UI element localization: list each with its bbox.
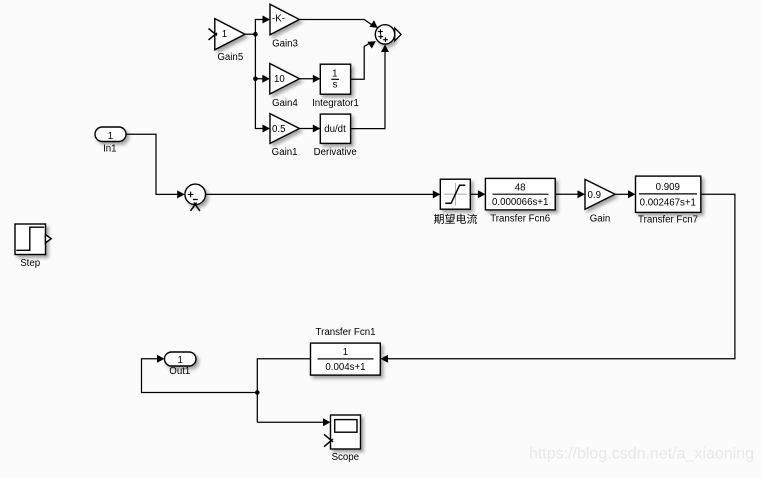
- transfer function TransferFcn6: [485, 178, 555, 210]
- svg-text:Gain: Gain: [590, 214, 610, 225]
- svg-text:Scope: Scope: [332, 452, 359, 463]
- summing junction Sum2: [185, 184, 206, 205]
- scope block: [331, 415, 361, 449]
- derivative block: [320, 114, 350, 143]
- svg-text:In1: In1: [103, 144, 116, 155]
- wire Gain1 output to Derivative input: [299, 128, 313, 130]
- wire In1 to Sum2 input: [126, 134, 178, 194]
- svg-text:Derivative: Derivative: [314, 147, 357, 158]
- svg-text:1: 1: [178, 355, 183, 366]
- svg-text:10: 10: [274, 74, 285, 85]
- wire junction to Gain4 input: [255, 78, 263, 80]
- svg-text:Transfer Fcn7: Transfer Fcn7: [638, 214, 698, 225]
- svg-text:Gain4: Gain4: [272, 98, 298, 109]
- wire Gain output to TransferFcn7 input: [615, 193, 629, 195]
- svg-text:48: 48: [515, 182, 526, 193]
- junction dot on output trunk: [255, 390, 260, 395]
- gain Gain1: [270, 114, 299, 144]
- svg-text:0.5: 0.5: [272, 124, 285, 135]
- svg-text:Step: Step: [20, 258, 40, 269]
- step source block: [15, 224, 46, 255]
- svg-text:0.9: 0.9: [588, 190, 601, 201]
- junction dot at Gain5 branch: [253, 32, 258, 37]
- Sum1 unconnected output port: [395, 28, 401, 41]
- svg-text:Gain1: Gain1: [272, 147, 298, 158]
- svg-text:du/dt: du/dt: [324, 124, 346, 135]
- wire trunk down to Gain1 input: [255, 34, 263, 128]
- svg-text:Transfer Fcn1: Transfer Fcn1: [316, 327, 376, 338]
- svg-text:https://blog.csdn.net/a_xiaoni: https://blog.csdn.net/a_xiaoning: [529, 446, 754, 463]
- svg-text:1: 1: [108, 131, 113, 142]
- svg-text:0.909: 0.909: [656, 182, 680, 193]
- Scope unconnected second input port: [324, 434, 333, 446]
- outport Out1: [165, 352, 197, 366]
- gain Gain4: [270, 64, 300, 95]
- svg-text:Integrator1: Integrator1: [312, 98, 359, 109]
- wire Gain3 output to Sum1 upper-left input: [299, 20, 372, 26]
- wire Saturation output to TransferFcn6 input: [470, 193, 479, 195]
- wire Derivative output to Sum1 bottom input: [351, 50, 385, 129]
- svg-text:0.000066s+1: 0.000066s+1: [492, 197, 548, 208]
- wire TransferFcn1 output to trunk: [257, 359, 310, 422]
- wire Gain4 output to Integrator1 input: [300, 78, 314, 80]
- svg-text:-K-: -K-: [272, 13, 285, 24]
- svg-text:Gain5: Gain5: [217, 52, 243, 63]
- gain Gain: [585, 179, 615, 209]
- saturation block (desired current limiter): [440, 179, 470, 209]
- svg-text:Out1: Out1: [169, 366, 190, 377]
- integrator Integrator1: [320, 64, 350, 94]
- Step unconnected output port: [45, 235, 51, 243]
- label CJK desired-current: [434, 214, 477, 224]
- wire TransferFcn7 output feedback to TransferFcn1 input: [388, 194, 735, 359]
- wire Sum2 output to Saturation input: [206, 193, 435, 195]
- transfer function TransferFcn7: [636, 176, 701, 212]
- svg-text:s: s: [333, 80, 338, 91]
- wire Integrator1 output to Sum1 lower-left input: [351, 42, 372, 79]
- svg-text:Transfer Fcn6: Transfer Fcn6: [490, 214, 550, 225]
- svg-text:0.004s+1: 0.004s+1: [325, 362, 365, 373]
- svg-text:0.002467s+1: 0.002467s+1: [640, 198, 696, 209]
- wire trunk junction up to Gain3 input: [255, 20, 263, 35]
- svg-text:Gain3: Gain3: [272, 38, 298, 49]
- gain Gain3: [270, 4, 299, 35]
- gain Gain5: [215, 19, 245, 50]
- svg-text:1: 1: [222, 29, 227, 40]
- svg-text:1: 1: [332, 69, 337, 80]
- Gain5 unconnected input port: [209, 29, 218, 40]
- wire Gain5 output to trunk junction: [245, 33, 256, 35]
- svg-text:1: 1: [343, 347, 348, 358]
- Sum2 unconnected minus input port: [191, 203, 200, 211]
- wire trunk to Out1: [142, 359, 258, 393]
- junction dot at Gain4 branch: [253, 76, 258, 81]
- wire trunk to Scope input: [257, 421, 324, 423]
- inport In1: [95, 127, 126, 142]
- summing junction Sum1: [375, 25, 394, 44]
- wire TransferFcn6 output to Gain input: [555, 193, 578, 195]
